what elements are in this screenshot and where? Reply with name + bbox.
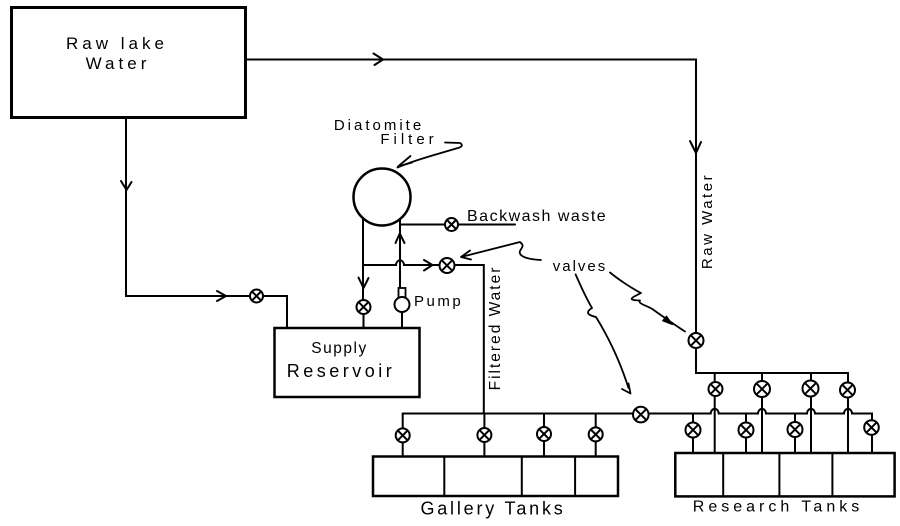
svg-text:Backwash waste: Backwash waste <box>467 208 607 225</box>
svg-text:Raw Water: Raw Water <box>699 173 716 269</box>
svg-text:Raw lake: Raw lake <box>66 34 168 53</box>
svg-text:Supply: Supply <box>311 340 367 357</box>
svg-text:Filter: Filter <box>380 131 437 148</box>
svg-text:Water: Water <box>86 54 151 73</box>
svg-text:valves: valves <box>553 258 608 275</box>
svg-text:Research Tanks: Research Tanks <box>693 499 863 516</box>
svg-text:Filtered Water: Filtered Water <box>487 266 504 391</box>
svg-text:Reservoir: Reservoir <box>287 361 396 381</box>
svg-text:Gallery Tanks: Gallery Tanks <box>420 499 565 519</box>
svg-text:Pump: Pump <box>414 293 463 310</box>
